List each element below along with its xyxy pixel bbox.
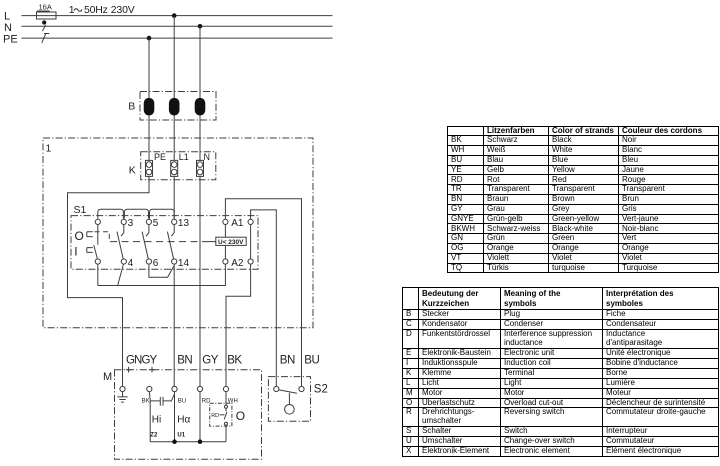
svg-text:S2: S2	[314, 383, 328, 395]
position O marker	[75, 229, 93, 243]
svg-text:L1: L1	[179, 152, 189, 162]
svg-text:Hα: Hα	[177, 415, 190, 426]
node L	[4, 10, 10, 22]
svg-text:RD: RD	[211, 413, 219, 419]
svg-text:13: 13	[178, 218, 190, 229]
svg-text:Hi: Hi	[152, 415, 161, 426]
S2 lamp stem	[288, 393, 290, 405]
plug pin 3	[195, 98, 206, 116]
wire L drop	[173, 16, 175, 161]
stem pole0	[97, 225, 99, 245]
wire N through to motor	[199, 176, 201, 386]
svg-text:U< 230V: U< 230V	[218, 239, 244, 246]
svg-text:U1: U1	[177, 432, 185, 438]
wire bridge 6 to 14	[149, 264, 174, 277]
wire A2 down to pole rail	[98, 264, 226, 285]
pin label U1	[177, 432, 185, 438]
motor terminal BK (overload)	[223, 386, 228, 391]
svg-text:B: B	[128, 101, 135, 113]
svg-text:I: I	[74, 244, 77, 258]
wire S1 feed bus hump 2	[124, 209, 148, 218]
svg-text:1: 1	[46, 143, 52, 155]
blade pole5	[142, 232, 148, 259]
S2 terminal BN	[274, 386, 279, 391]
svg-text:Z2: Z2	[150, 432, 158, 438]
pin label BK	[142, 399, 150, 405]
svg-text:N: N	[4, 22, 12, 34]
mechanical coupling dashed link	[95, 232, 110, 242]
wire N rail	[22, 25, 333, 27]
wire 14 down to motor BN	[173, 264, 175, 386]
svg-text:BU: BU	[304, 355, 319, 367]
stem pole5	[146, 225, 149, 237]
svg-text:GY: GY	[202, 355, 218, 367]
svg-text:BN: BN	[177, 355, 192, 367]
slash on N conductor	[42, 25, 45, 31]
svg-text:M: M	[103, 371, 112, 383]
tick mark 1 on GNGY	[126, 367, 132, 373]
junction L	[172, 13, 177, 18]
terminal block K	[129, 152, 216, 180]
svg-text:PE: PE	[3, 33, 18, 45]
wire motor star bus	[150, 441, 226, 443]
wire Hi winding Z2	[148, 392, 151, 442]
junction N	[198, 24, 203, 29]
fuse F1 16A	[37, 3, 57, 19]
svg-text:K: K	[129, 164, 136, 176]
auxiliary contact top	[248, 219, 253, 224]
svg-text:L: L	[4, 10, 10, 22]
contact S1:5 top	[146, 218, 158, 229]
motor M	[103, 370, 262, 460]
plug B	[128, 92, 216, 121]
wire Ha winding U1	[174, 392, 176, 442]
wire overload to bus	[225, 425, 227, 441]
wire L rail	[22, 15, 333, 17]
terminal K:L1	[171, 152, 189, 176]
contact S1 pole0 top	[95, 219, 100, 224]
wire L1 to S1	[173, 176, 175, 219]
plug pin 2	[169, 98, 180, 116]
svg-text:PE: PE	[154, 152, 166, 162]
svg-text:BN: BN	[280, 355, 295, 367]
wire label BU (S2)	[304, 355, 319, 367]
pin label WH	[228, 399, 238, 405]
switch S2	[268, 377, 327, 422]
svg-text:O: O	[236, 409, 245, 423]
wire S1 feed bus hump 1	[98, 209, 124, 218]
wire A1 up over to S2 BU	[225, 199, 301, 387]
contact S1:14 bottom	[172, 258, 190, 269]
svg-text:BK: BK	[227, 355, 242, 367]
S2 terminal BU	[299, 386, 304, 391]
wire S1 feed bus hump 3	[150, 209, 175, 218]
undervoltage release U< 230V	[216, 237, 246, 246]
motor terminal PE	[120, 386, 125, 391]
overload O	[210, 403, 245, 426]
junction PE	[147, 36, 152, 41]
contact S1:13 top	[172, 218, 190, 229]
junction GY	[198, 439, 203, 444]
capacitor C	[150, 394, 174, 406]
pin label BU	[178, 399, 186, 405]
tick mark 2 on GNGY	[149, 367, 155, 373]
S2 blade	[279, 390, 297, 393]
switch S1	[71, 204, 258, 269]
svg-text:S1: S1	[74, 204, 87, 216]
svg-text:16A: 16A	[39, 3, 52, 12]
blade pole13	[167, 232, 173, 259]
svg-text:N: N	[204, 152, 211, 162]
wire label BN (S2)	[280, 355, 295, 367]
svg-text:6: 6	[153, 258, 159, 269]
wire label GY	[202, 355, 218, 367]
wire label GNGY	[126, 355, 157, 367]
node N	[4, 22, 12, 34]
motor terminal BN (Ha)	[172, 386, 177, 391]
wire label BN	[177, 355, 192, 367]
wire auxiliary mid	[250, 225, 252, 259]
wire aux down jog to motor BK	[226, 264, 251, 386]
motor terminal GY	[197, 386, 202, 391]
wire PE to motor earth	[68, 176, 150, 386]
pin label Z2	[150, 432, 158, 438]
auxiliary contact bottom	[248, 259, 253, 264]
wire GY down	[199, 392, 201, 442]
svg-text:230V: 230V	[111, 4, 135, 16]
ground	[117, 392, 127, 403]
position I marker	[74, 244, 93, 258]
pin label RD	[202, 399, 211, 405]
stem pole13	[171, 225, 174, 237]
wire N drop	[199, 26, 201, 160]
wire label BK	[227, 355, 242, 367]
contact S1 pole0 bottom	[95, 259, 100, 264]
wire aux up over to S2 BN	[251, 210, 277, 387]
wire PE rail	[22, 37, 333, 39]
wire contact4 diagonal to rail	[118, 265, 124, 286]
svg-text:BK: BK	[142, 399, 150, 405]
junction U1	[172, 439, 177, 444]
table: Bedeutung der Kurzzeichen	[402, 287, 719, 457]
svg-text:BU: BU	[178, 399, 186, 405]
svg-text:5: 5	[153, 218, 159, 229]
blade pole3	[117, 232, 123, 259]
coil terminal A1	[223, 218, 244, 229]
blade pole0	[94, 245, 98, 259]
lamp L	[285, 405, 295, 415]
svg-text:A1: A1	[231, 218, 244, 229]
stem pole3	[121, 225, 124, 237]
plug pin 1	[144, 98, 155, 116]
svg-text:50Hz: 50Hz	[84, 4, 108, 16]
wire coil to A2	[224, 245, 226, 259]
node PE	[3, 33, 18, 45]
contact S1:4 bottom	[121, 258, 133, 269]
motor terminal BK (Hi)	[147, 386, 152, 391]
coil terminal A2	[223, 258, 244, 269]
value label 1~50Hz 230V	[69, 4, 135, 16]
wire BK to overload	[225, 392, 227, 406]
slash with bar on PE conductor	[42, 34, 50, 43]
winding label Ha	[177, 415, 190, 426]
svg-text:14: 14	[178, 258, 190, 269]
winding label Hi	[152, 415, 161, 426]
svg-text:4: 4	[128, 258, 134, 269]
terminal K:PE	[146, 152, 167, 176]
wire PE drop	[148, 38, 150, 160]
junction under fuse	[42, 20, 46, 24]
table: Litzenfarben / Color of strands	[447, 126, 719, 274]
svg-text:3: 3	[128, 218, 134, 229]
svg-text:O: O	[75, 229, 84, 243]
terminal K:N	[197, 152, 211, 176]
wire pole0 down to rail	[97, 264, 99, 285]
mechanical coupling long dashes	[110, 241, 216, 243]
contact S1:6 bottom	[146, 258, 158, 269]
tilde of supply label	[74, 9, 82, 12]
svg-text:GNGY: GNGY	[126, 355, 157, 367]
contact S1:3 top	[121, 218, 133, 229]
enclosure box 1	[43, 138, 313, 328]
wire A1 to coil	[224, 225, 226, 238]
svg-text:A2: A2	[231, 258, 244, 269]
